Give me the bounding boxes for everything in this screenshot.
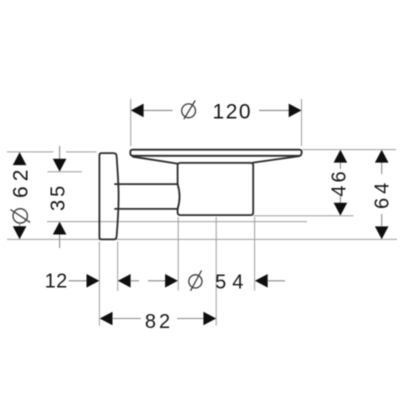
dimension 46 bottom arrow <box>334 203 348 216</box>
dimension 12 leader line <box>69 280 88 282</box>
dimension 35 top arrow (points down) <box>53 159 67 172</box>
svg-text:35: 35 <box>47 183 69 211</box>
extension line 35 bottom (long) <box>47 221 307 223</box>
dimension 82 line left segment <box>112 318 141 320</box>
dimension dia62 bottom arrow <box>13 226 27 239</box>
dimension dia54 left arrow (points right) <box>165 274 178 288</box>
dimension dia62 line bottom segment <box>19 224 21 239</box>
label 62 (rotated) <box>9 165 32 198</box>
arm bottom edge <box>115 208 178 210</box>
plate underside left cone slope <box>133 157 178 164</box>
label 46 (rotated) <box>329 168 351 196</box>
svg-text:64: 64 <box>372 179 394 209</box>
dimension 64 line lower segment <box>381 214 383 226</box>
extension line rosette right vertical <box>117 242 119 292</box>
label 82 <box>145 311 173 333</box>
dimension 46 line upper segment <box>339 162 341 169</box>
label 12 <box>45 271 68 293</box>
extension line cup bottom right <box>254 215 354 217</box>
dimension 46 line lower segment <box>339 196 341 203</box>
dimension 35 bottom arrow (points up) <box>53 222 67 235</box>
soap dish plate (top plate, side view) <box>130 150 301 156</box>
dimension dia120 line right segment <box>259 109 290 111</box>
extension line rosette left vertical <box>98 242 100 326</box>
cup (soap dish bowl) with arm socket arc <box>178 163 254 215</box>
extension line cup left vertical <box>177 217 179 291</box>
arm (wall bar) top edge <box>115 183 178 185</box>
extension line rosette bottom (long) <box>7 238 397 240</box>
dimension dia54 right tail <box>267 280 285 282</box>
label 35 (rotated) <box>47 183 69 211</box>
extension line cup centerline vertical <box>215 217 217 326</box>
dia symbol of dia120 <box>182 101 196 120</box>
svg-text:12: 12 <box>45 271 68 293</box>
extension line cup right vertical <box>254 217 256 291</box>
dimension 35 tail top <box>59 146 61 159</box>
svg-text:120: 120 <box>213 100 253 123</box>
dimension dia54 left tail <box>148 280 166 282</box>
dimension dia120 line left segment <box>142 109 173 111</box>
svg-text:54: 54 <box>215 271 249 293</box>
wall plate (rosette, side view) <box>99 153 118 239</box>
extension line rosette top left (segment b) <box>66 151 97 153</box>
label 64 (rotated) <box>372 179 394 209</box>
dimension 35 tail bottom <box>59 235 61 249</box>
dimension 46 top arrow <box>334 150 348 163</box>
dimension 64 line upper segment <box>381 163 383 175</box>
svg-text:82: 82 <box>145 311 173 333</box>
dimension 12 right arrow (points left) <box>118 274 131 288</box>
plate underside right cone slope <box>253 156 300 163</box>
extension line dia120 right vertical <box>301 99 303 146</box>
dimension 64 top arrow <box>375 150 389 163</box>
dimension dia62 top arrow <box>13 152 27 165</box>
extension line rosette top left (segment a) <box>7 151 54 153</box>
label 54 <box>215 271 249 293</box>
extension line plate top right <box>303 149 397 151</box>
dimension dia120 right arrow <box>289 104 302 118</box>
dimension dia120 left arrow <box>131 104 144 118</box>
dimension 82 left arrow (points left) <box>100 312 113 326</box>
dia symbol of dia62 (rotated) <box>10 209 30 223</box>
dimension dia54 right arrow (points left) <box>255 274 268 288</box>
dimension 12 left arrow (points right) <box>87 274 100 288</box>
dimension 82 line right segment <box>177 318 204 320</box>
dimension 64 bottom arrow <box>375 226 389 239</box>
svg-text:62: 62 <box>9 165 32 198</box>
dimension dia62 line top segment <box>19 152 21 165</box>
dimension 12 right tail <box>130 280 139 282</box>
extension line dia120 left vertical <box>130 99 132 146</box>
dimension 82 right arrow (points right) <box>203 312 216 326</box>
label 120 <box>213 100 253 123</box>
dia symbol of dia54 <box>189 271 202 291</box>
svg-text:46: 46 <box>329 168 351 196</box>
extension line 35 top <box>48 171 83 173</box>
